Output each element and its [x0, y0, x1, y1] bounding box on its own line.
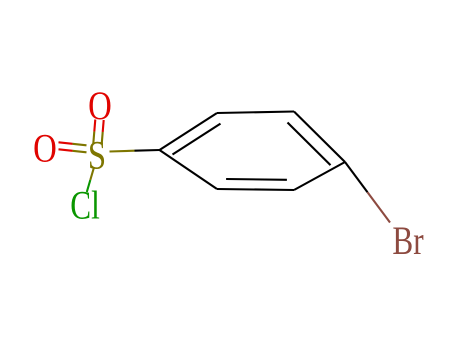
wire S-C bond to ring (olive half / black half) [110, 150, 160, 152]
wire C-Br bond (black half / brown half) [345, 162, 390, 223]
wire ring inner double of TR-R [288, 123, 331, 166]
benzene ring of U ring [160, 112, 346, 191]
svg-text:Br: Br [392, 218, 423, 263]
atom O1 (top oxygen) [88, 83, 112, 128]
wire ring edge L-TL [160, 113, 218, 150]
wire ring edge R-BR [294, 162, 345, 190]
wire ring edge BR-BL (bottom) [217, 189, 294, 190]
wire S=O top double bond (red half / olive half) [93, 120, 103, 145]
wire ring edge TL-TR (top) [217, 112, 294, 114]
atom Br (bromine) [392, 218, 423, 263]
svg-text:O: O [88, 83, 112, 128]
wire ring inner double of L-TL [173, 124, 221, 155]
wire S-Cl bond (olive half / green half) [87, 168, 94, 192]
wire ring edge BL-L [160, 150, 218, 189]
atom O2 (left oxygen) [33, 126, 57, 171]
wire ring edge TR-R [294, 112, 345, 163]
wire ring inner double of BR-BL [226, 178, 287, 181]
svg-text:S: S [88, 133, 106, 178]
atom S (sulfur) [88, 133, 106, 178]
wire O=S left double bond (red half / olive half) [59, 142, 87, 152]
svg-text:O: O [33, 126, 57, 171]
svg-text:Cl: Cl [70, 183, 100, 228]
atom Cl (chlorine) [70, 183, 100, 228]
